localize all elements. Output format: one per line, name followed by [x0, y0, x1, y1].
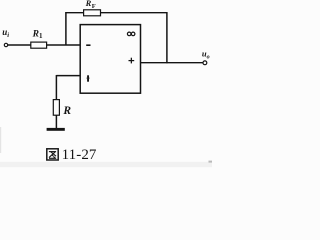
- wire RF to right vertical: [101, 12, 168, 14]
- wire feedback vertical left: [65, 12, 67, 45]
- svg-text:ui: ui: [2, 27, 9, 39]
- resistor RF: [84, 10, 101, 16]
- scan bottom band: [0, 162, 212, 167]
- resistor R: [53, 100, 59, 116]
- output terminal uo: [203, 61, 207, 65]
- scan left edge line: [0, 127, 1, 153]
- wire top to RF: [65, 12, 84, 14]
- wire feedback vertical right down to output: [166, 12, 168, 63]
- wire down to R: [55, 75, 57, 100]
- svg-text:R: R: [62, 105, 71, 117]
- op-amp minus marker (inverting input): [86, 44, 90, 46]
- input terminal ui: [4, 43, 7, 46]
- op-amp U1 body: [80, 25, 140, 94]
- wire R1 to op-amp inverting input: [47, 44, 81, 46]
- svg-text:F: F: [92, 3, 96, 10]
- output wire: [141, 62, 204, 64]
- ground: [47, 128, 65, 131]
- op-amp plus marker (non-inverting input): [87, 75, 89, 81]
- svg-text:11-27: 11-27: [62, 147, 97, 163]
- wire non-inverting input: [56, 75, 80, 77]
- wire input to R1: [8, 44, 31, 46]
- svg-text:uo: uo: [202, 49, 210, 61]
- resistor R1: [31, 42, 47, 48]
- svg-text:R: R: [85, 0, 92, 8]
- svg-text:R1: R1: [32, 29, 43, 40]
- caption glyph 图: [47, 149, 58, 160]
- wire R to ground: [55, 115, 57, 128]
- op-amp infinity symbol: [127, 32, 135, 36]
- op-amp plus marker (output polarity): [129, 58, 135, 64]
